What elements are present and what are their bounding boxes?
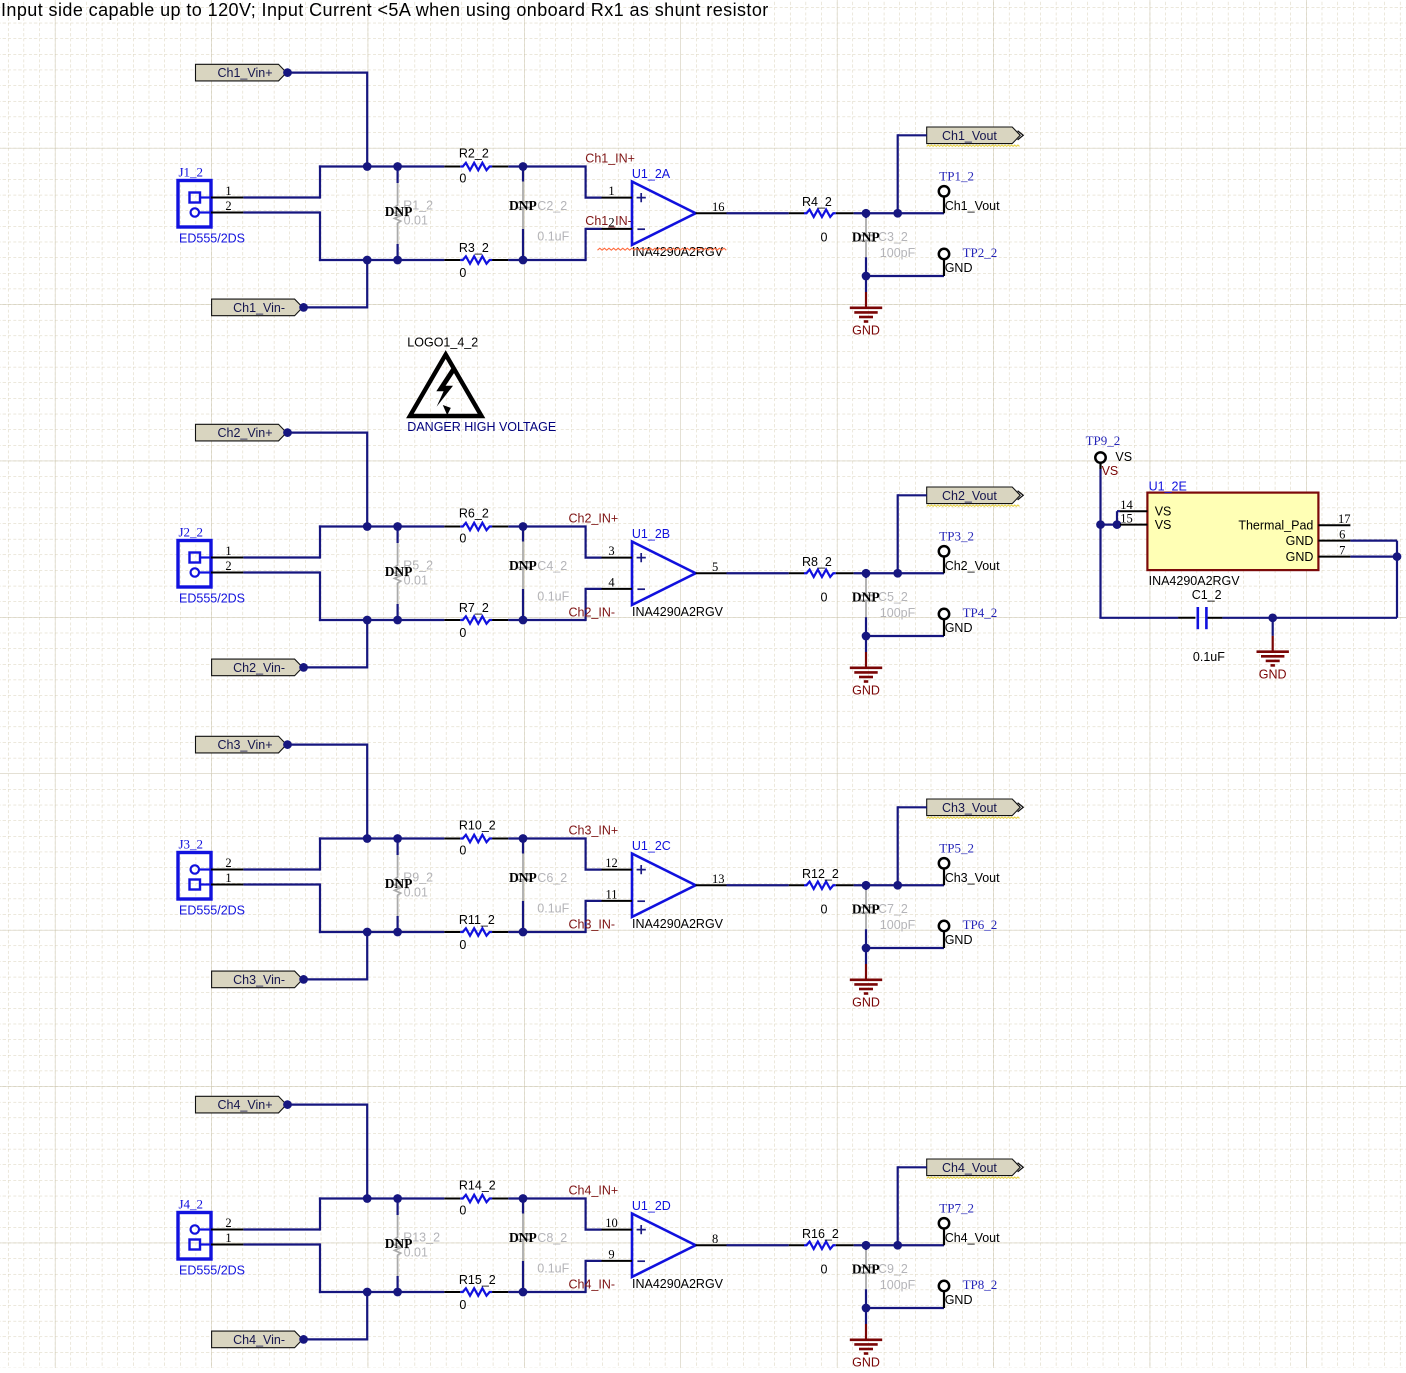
svg-text:INA4290A2RGV: INA4290A2RGV <box>632 1277 724 1291</box>
wire bottom rail right <box>508 1291 585 1293</box>
wire bend down to output <box>897 806 899 885</box>
svg-text:2: 2 <box>225 559 231 573</box>
junction output / port <box>893 569 902 578</box>
svg-text:GND: GND <box>852 324 880 338</box>
wire pin1 to bus <box>243 1228 320 1230</box>
svg-text:DNP: DNP <box>852 230 880 245</box>
junction gnd right <box>1268 613 1277 622</box>
svg-text:0.1uF: 0.1uF <box>1193 650 1225 664</box>
svg-text:J1_2: J1_2 <box>179 165 204 180</box>
test point TP8_2 <box>939 1281 949 1291</box>
svg-text:J3_2: J3_2 <box>179 837 204 852</box>
wire gnd to TP <box>866 1307 944 1309</box>
wire to ground <box>865 1308 867 1324</box>
port Ch4_Vin+ <box>196 1096 287 1113</box>
svg-text:0: 0 <box>459 843 466 857</box>
wire port to bend <box>898 1166 927 1168</box>
wire to ground <box>865 636 867 652</box>
wire pin2 to bus <box>243 211 320 213</box>
svg-text:C7_2: C7_2 <box>878 902 908 916</box>
wire Vin+ down to top rail <box>366 1104 368 1199</box>
svg-text:ED555/2DS: ED555/2DS <box>179 1264 245 1278</box>
port Ch3_Vout <box>927 799 1021 816</box>
wire bottom rail right <box>508 619 585 621</box>
junction at Ch2_Vin+ tip <box>283 428 292 437</box>
wire Vin- to bend <box>304 666 368 668</box>
junction output / C <box>862 881 871 890</box>
svg-text:TP7_2: TP7_2 <box>939 1200 974 1215</box>
port Ch2_Vout <box>927 487 1021 504</box>
svg-text:1: 1 <box>608 184 614 198</box>
pin 1 <box>211 557 243 559</box>
wire Vin- to bend <box>304 978 368 980</box>
svg-text:C5_2: C5_2 <box>878 590 908 604</box>
junction at Ch3_Vin+ tip <box>283 740 292 749</box>
svg-text:0: 0 <box>459 266 466 280</box>
wire gnd to TP <box>866 275 944 277</box>
svg-text:DNP: DNP <box>385 1236 413 1251</box>
wire step up to -input <box>584 1261 586 1293</box>
svg-text:TP8_2: TP8_2 <box>963 1277 998 1292</box>
junction output / C <box>862 209 871 218</box>
svg-text:DNP: DNP <box>852 902 880 917</box>
svg-text:R6_2: R6_2 <box>459 507 489 521</box>
wire bus up <box>319 525 321 558</box>
junction top rail / Vin+ <box>363 834 372 843</box>
wire pin7 to right <box>1350 555 1397 557</box>
svg-text:100pF: 100pF <box>880 918 916 932</box>
svg-text:VS: VS <box>1155 505 1172 519</box>
connector J4_2 ED555/2DS <box>178 1213 211 1260</box>
wire TP9 down <box>1099 463 1101 469</box>
ground <box>865 1324 867 1340</box>
resistor R10_2 0 <box>444 838 460 840</box>
svg-text:U1_2E: U1_2E <box>1149 480 1187 494</box>
test point TP4_2 <box>939 609 949 619</box>
ground <box>865 652 867 668</box>
pin 2 <box>211 869 243 871</box>
svg-text:0.1uF: 0.1uF <box>537 230 569 244</box>
resistor R1_2 0.01 DNP <box>393 162 402 171</box>
port warning squiggle <box>927 145 1020 146</box>
wire Vin- up to bottom rail <box>366 620 368 669</box>
capacitor C6_2 0.1uF DNP <box>519 834 528 843</box>
svg-text:100pF: 100pF <box>880 606 916 620</box>
svg-text:INA4290A2RGV: INA4290A2RGV <box>1149 574 1241 588</box>
svg-text:DANGER HIGH VOLTAGE: DANGER HIGH VOLTAGE <box>407 420 556 434</box>
wire bend down to output <box>897 134 899 213</box>
pin out <box>696 212 727 214</box>
resistor R6_2 0 <box>444 526 460 528</box>
wire bend down to output <box>897 494 899 573</box>
svg-text:J4_2: J4_2 <box>179 1197 204 1212</box>
pin 2 <box>211 1229 243 1231</box>
wire opamp out to R <box>727 884 789 886</box>
svg-text:2: 2 <box>225 1216 231 1230</box>
resistor R16_2 0 <box>789 1244 804 1246</box>
wire Vin- up to bottom rail <box>366 1292 368 1341</box>
svg-text:1: 1 <box>225 1231 231 1245</box>
resistor R4_2 0 <box>789 212 804 214</box>
resistor R11_2 0 <box>444 931 460 933</box>
wire Vin+ down to top rail <box>366 432 368 527</box>
svg-text:Ch4_Vin-: Ch4_Vin- <box>233 1333 285 1347</box>
junction at Ch1_Vin+ tip <box>283 68 292 77</box>
wire to ground <box>865 276 867 292</box>
svg-text:R3_2: R3_2 <box>459 241 489 255</box>
wire pin1 to bus <box>243 868 320 870</box>
capacitor C3_2 100pF DNP <box>865 213 867 218</box>
svg-text:Ch2_IN+: Ch2_IN+ <box>569 511 619 525</box>
svg-text:Ch3_Vin+: Ch3_Vin+ <box>217 738 272 752</box>
IC U1_2E INA4290A2RGV <box>1147 493 1318 570</box>
svg-text:Ch3_IN+: Ch3_IN+ <box>569 823 619 837</box>
wire pin6 to right <box>1350 539 1397 541</box>
svg-text:INA4290A2RGV: INA4290A2RGV <box>632 917 724 931</box>
test point TP6_2 <box>939 921 949 931</box>
svg-text:Ch2_Vin+: Ch2_Vin+ <box>217 426 272 440</box>
capacitor C1_2 0.1uF <box>1178 617 1195 619</box>
svg-text:Ch2_Vout: Ch2_Vout <box>945 559 1000 573</box>
junction bottom rail / Vin- <box>363 928 372 937</box>
wire step down to +input <box>584 1197 586 1229</box>
svg-text:Ch4_IN-: Ch4_IN- <box>569 1278 616 1292</box>
port Ch1_Vin+ <box>196 64 287 81</box>
svg-text:10: 10 <box>605 1216 618 1230</box>
pin out <box>696 572 727 574</box>
svg-text:R10_2: R10_2 <box>459 819 496 833</box>
wire step down to +input <box>584 525 586 557</box>
junction at Ch4_Vin+ tip <box>283 1100 292 1109</box>
svg-text:J2_2: J2_2 <box>179 525 204 540</box>
svg-text:Ch4_Vout: Ch4_Vout <box>945 1231 1000 1245</box>
wire Vin+ to bend <box>288 432 368 434</box>
wire opamp out to R <box>727 1244 789 1246</box>
svg-text:ED555/2DS: ED555/2DS <box>179 904 245 918</box>
svg-text:Ch1_Vout: Ch1_Vout <box>942 129 997 143</box>
svg-text:Ch3_Vout: Ch3_Vout <box>945 871 1000 885</box>
pin 17 Thermal_Pad <box>1318 524 1350 526</box>
connector J1_2 ED555/2DS <box>178 181 211 228</box>
resistor R14_2 0 <box>444 1198 460 1200</box>
svg-text:DNP: DNP <box>852 1262 880 1277</box>
pin 2 <box>211 572 243 574</box>
wire R out to TP <box>854 884 944 886</box>
wire port to bend <box>898 806 927 808</box>
wire bend down to output <box>897 1166 899 1245</box>
capacitor C4_2 0.1uF DNP <box>519 522 528 531</box>
wire pin14 drop <box>1116 511 1118 524</box>
junction top rail / Vin+ <box>363 162 372 171</box>
wire port to bend <box>898 494 927 496</box>
pin 14 VS <box>1120 510 1147 512</box>
junction gnd net <box>862 272 871 281</box>
wire top rail left <box>319 1197 444 1199</box>
svg-text:0: 0 <box>459 626 466 640</box>
svg-text:100pF: 100pF <box>880 1278 916 1292</box>
wire top rail right <box>508 1197 585 1199</box>
wire Vin+ down to top rail <box>366 72 368 167</box>
svg-text:3: 3 <box>608 544 614 558</box>
svg-text:U1_2A: U1_2A <box>632 167 671 181</box>
wire pin2 to bus <box>243 571 320 573</box>
svg-text:11: 11 <box>605 887 617 901</box>
port warning squiggle <box>927 817 1020 818</box>
junction at Ch2_Vin- tip <box>299 663 308 672</box>
svg-text:DNP: DNP <box>385 876 413 891</box>
wire top rail left <box>319 837 444 839</box>
svg-text:2: 2 <box>225 199 231 213</box>
wire bus down <box>319 883 321 933</box>
test point TP5_2 <box>939 858 949 868</box>
wire VS to pins <box>1101 523 1119 525</box>
svg-text:TP2_2: TP2_2 <box>963 245 998 260</box>
svg-text:1: 1 <box>225 871 231 885</box>
wire step up to -input <box>584 901 586 933</box>
pin 1 <box>211 884 243 886</box>
svg-text:VS: VS <box>1115 450 1132 464</box>
svg-text:R7_2: R7_2 <box>459 601 489 615</box>
test point TP2_2 <box>939 249 949 259</box>
svg-text:R11_2: R11_2 <box>459 913 495 927</box>
svg-text:Ch3_Vin-: Ch3_Vin- <box>233 973 285 987</box>
svg-text:R16_2: R16_2 <box>802 1227 839 1241</box>
svg-text:C1_2: C1_2 <box>1192 588 1222 602</box>
svg-text:GND: GND <box>945 933 973 947</box>
svg-text:Thermal_Pad: Thermal_Pad <box>1238 518 1313 532</box>
svg-text:LOGO1_4_2: LOGO1_4_2 <box>407 335 478 349</box>
capacitor C7_2 100pF DNP <box>865 885 867 890</box>
junction top rail / Vin+ <box>363 1194 372 1203</box>
svg-text:GND: GND <box>852 1356 880 1368</box>
svg-text:VS: VS <box>1155 518 1172 532</box>
wire R out to TP <box>854 572 944 574</box>
wire gnd to TP <box>866 635 944 637</box>
svg-text:U1_2C: U1_2C <box>632 839 671 853</box>
port warning squiggle <box>927 1177 1020 1178</box>
wire Vin- up to bottom rail <box>366 260 368 309</box>
svg-text:GND: GND <box>1286 550 1314 564</box>
svg-text:4: 4 <box>608 575 615 589</box>
svg-text:GND: GND <box>945 261 973 275</box>
svg-text:GND: GND <box>945 1293 973 1307</box>
wire Vin- to bend <box>304 306 368 308</box>
resistor R12_2 0 <box>789 884 804 886</box>
op-amp U1_2B INA4290A2RGV <box>632 542 696 605</box>
wire Vin+ to bend <box>288 71 368 73</box>
wire opamp out to R <box>727 572 789 574</box>
svg-text:R8_2: R8_2 <box>802 555 832 569</box>
compile squiggle <box>598 248 727 250</box>
svg-text:12: 12 <box>605 856 618 870</box>
resistor R13_2 0.01 DNP <box>393 1194 402 1203</box>
junction bottom rail / Vin- <box>363 1288 372 1297</box>
port Ch2_Vin+ <box>196 424 287 441</box>
svg-text:0: 0 <box>459 531 466 545</box>
wire top rail right <box>508 165 585 167</box>
svg-text:0: 0 <box>459 1203 466 1217</box>
svg-text:0: 0 <box>459 1298 466 1312</box>
junction bottom rail / Vin- <box>363 616 372 625</box>
svg-text:GND: GND <box>1259 668 1287 682</box>
pin 2 <box>211 212 243 214</box>
svg-text:R15_2: R15_2 <box>459 1273 496 1287</box>
svg-text:DNP: DNP <box>509 1230 537 1245</box>
svg-text:Ch2_Vout: Ch2_Vout <box>942 489 997 503</box>
junction VS 1 <box>1096 520 1105 529</box>
wire bottom rail left <box>319 931 444 933</box>
svg-text:ED555/2DS: ED555/2DS <box>179 232 245 246</box>
svg-text:Ch3_IN-: Ch3_IN- <box>569 918 616 932</box>
svg-text:DNP: DNP <box>509 558 537 573</box>
svg-text:Ch4_Vin+: Ch4_Vin+ <box>217 1098 272 1112</box>
svg-text:Ch2_IN-: Ch2_IN- <box>569 606 616 620</box>
svg-text:9: 9 <box>608 1247 614 1261</box>
wire R out to TP <box>854 212 944 214</box>
svg-text:C4_2: C4_2 <box>537 559 567 573</box>
svg-text:0: 0 <box>821 1263 828 1277</box>
junction pin6/7 <box>1393 552 1402 561</box>
svg-text:TP4_2: TP4_2 <box>963 605 998 620</box>
test point TP9_2 <box>1095 452 1105 462</box>
svg-text:GND: GND <box>852 684 880 698</box>
junction at Ch4_Vin- tip <box>299 1335 308 1344</box>
wire top rail right <box>508 837 585 839</box>
svg-text:17: 17 <box>1338 512 1351 526</box>
pin 15 VS <box>1120 524 1147 526</box>
pin out <box>696 1244 727 1246</box>
svg-text:INA4290A2RGV: INA4290A2RGV <box>632 245 724 259</box>
wire right down <box>1396 557 1398 618</box>
pin 6 GND <box>1318 540 1350 542</box>
junction top rail / Vin+ <box>363 522 372 531</box>
pin 1 <box>211 1244 243 1246</box>
svg-text:C8_2: C8_2 <box>537 1231 567 1245</box>
resistor R3_2 0 <box>444 259 460 261</box>
svg-text:C2_2: C2_2 <box>537 199 567 213</box>
svg-text:C9_2: C9_2 <box>878 1262 908 1276</box>
svg-text:0.1uF: 0.1uF <box>537 1262 569 1276</box>
wire step down to +input <box>584 837 586 869</box>
junction at Ch1_Vin- tip <box>299 303 308 312</box>
svg-text:14: 14 <box>1120 498 1133 512</box>
wire top rail left <box>319 525 444 527</box>
svg-text:Ch1_Vin+: Ch1_Vin+ <box>217 66 272 80</box>
wire pin2 to bus <box>243 883 320 885</box>
wire bottom rail left <box>319 259 444 261</box>
svg-text:Ch1_Vin-: Ch1_Vin- <box>233 301 285 315</box>
resistor R7_2 0 <box>444 619 460 621</box>
resistor R9_2 0.01 DNP <box>393 834 402 843</box>
wire step up to -input <box>584 229 586 261</box>
wire bus up <box>319 165 321 198</box>
svg-text:DNP: DNP <box>385 204 413 219</box>
svg-text:1: 1 <box>225 184 231 198</box>
svg-text:Ch2_Vin-: Ch2_Vin- <box>233 661 285 675</box>
wire bottom left <box>1099 617 1178 619</box>
svg-text:0: 0 <box>459 938 466 952</box>
junction at Ch3_Vin- tip <box>299 975 308 984</box>
op-amp U1_2A INA4290A2RGV <box>632 182 696 245</box>
wire pin2 to bus <box>243 1243 320 1245</box>
svg-text:TP3_2: TP3_2 <box>939 528 974 543</box>
svg-text:Ch3_Vout: Ch3_Vout <box>942 801 997 815</box>
wire Vin+ down to top rail <box>366 744 368 839</box>
junction gnd net <box>862 944 871 953</box>
wire bottom rail right <box>508 259 585 261</box>
svg-text:0: 0 <box>459 171 466 185</box>
wire Vin+ to bend <box>288 1103 368 1105</box>
capacitor C2_2 0.1uF DNP <box>519 162 528 171</box>
test point TP1_2 <box>939 186 949 196</box>
op-amp U1_2C INA4290A2RGV <box>632 854 696 917</box>
svg-text:U1_2B: U1_2B <box>632 527 670 541</box>
svg-text:R2_2: R2_2 <box>459 147 489 161</box>
capacitor C9_2 100pF DNP <box>865 1245 867 1250</box>
wire step up to -input <box>584 589 586 621</box>
ground <box>865 964 867 980</box>
svg-text:16: 16 <box>712 200 725 214</box>
svg-text:0.1uF: 0.1uF <box>537 590 569 604</box>
svg-text:GND: GND <box>1286 534 1314 548</box>
svg-text:6: 6 <box>1339 528 1345 542</box>
port Ch3_Vin+ <box>196 736 287 753</box>
port Ch3_Vin- <box>212 971 303 988</box>
junction output / port <box>893 881 902 890</box>
junction output / port <box>893 1241 902 1250</box>
wire bottom rail right <box>508 931 585 933</box>
pin 1 <box>211 197 243 199</box>
pin out <box>696 884 727 886</box>
ground right <box>1272 636 1274 652</box>
svg-text:0: 0 <box>821 591 828 605</box>
svg-text:0.1uF: 0.1uF <box>537 902 569 916</box>
svg-text:5: 5 <box>712 560 718 574</box>
svg-text:DNP: DNP <box>509 870 537 885</box>
wire top rail left <box>319 165 444 167</box>
wire gnd to TP <box>866 947 944 949</box>
port Ch1_Vin- <box>212 299 303 316</box>
svg-text:100pF: 100pF <box>880 246 916 260</box>
svg-text:0: 0 <box>821 231 828 245</box>
capacitor C8_2 0.1uF DNP <box>519 1194 528 1203</box>
svg-text:R14_2: R14_2 <box>459 1179 496 1193</box>
wire step down to +input <box>584 165 586 197</box>
test point TP3_2 <box>939 546 949 556</box>
svg-text:TP5_2: TP5_2 <box>939 840 974 855</box>
pin 7 GND <box>1318 556 1350 558</box>
svg-text:2: 2 <box>225 856 231 870</box>
svg-text:C6_2: C6_2 <box>537 871 567 885</box>
junction output / C <box>862 569 871 578</box>
svg-text:R4_2: R4_2 <box>802 195 832 209</box>
svg-text:DNP: DNP <box>852 590 880 605</box>
wire bus down <box>319 211 321 261</box>
svg-text:GND: GND <box>852 996 880 1010</box>
wire bus up <box>319 1197 321 1230</box>
wire to ground right <box>1272 618 1274 636</box>
port Ch4_Vin- <box>212 1331 303 1348</box>
wire port to bend <box>898 134 927 136</box>
svg-text:INA4290A2RGV: INA4290A2RGV <box>632 605 724 619</box>
svg-text:7: 7 <box>1339 544 1345 558</box>
wire bottom rail left <box>319 1291 444 1293</box>
svg-text:R12_2: R12_2 <box>802 867 839 881</box>
svg-text:Input side capable up to 120V;: Input side capable up to 120V; Input Cur… <box>1 0 769 20</box>
wire R out to TP <box>854 1244 944 1246</box>
svg-text:TP6_2: TP6_2 <box>963 917 998 932</box>
svg-text:TP9_2: TP9_2 <box>1086 433 1121 448</box>
